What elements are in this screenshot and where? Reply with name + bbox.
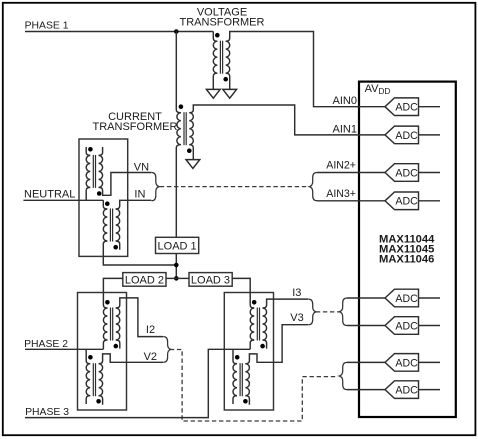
wire ADC3 internal output bbox=[419, 172, 441, 174]
wire T1 primary top lead bbox=[213, 32, 217, 42]
wire T7 secondary top lead I3 output bbox=[263, 299, 309, 308]
T7 primary polarity dot bbox=[252, 300, 257, 305]
T1 secondary polarity dot bbox=[223, 77, 228, 82]
wire T1 secondary top lead to AIN0 bbox=[226, 32, 385, 107]
svg-text:LOAD 3: LOAD 3 bbox=[191, 274, 230, 286]
wire ADC1 internal output bbox=[419, 106, 441, 108]
ADC block U1.3 bbox=[385, 164, 419, 182]
wire ADC7 input bbox=[347, 361, 385, 363]
dashed net I3/V3 to upper-lower ADC pair bbox=[316, 311, 339, 313]
label AIN1 pin bbox=[333, 123, 357, 135]
ADC block U1.7 bbox=[385, 354, 419, 372]
ADC block U1.4 bbox=[385, 192, 419, 210]
node junction neutral return bbox=[174, 263, 179, 268]
svg-text:ADC: ADC bbox=[395, 196, 418, 208]
svg-text:AIN1: AIN1 bbox=[333, 123, 357, 135]
label AIN2+ pin bbox=[326, 160, 356, 172]
neutral metering block box bbox=[79, 139, 128, 256]
transformer T1 voltage transformer bbox=[213, 41, 229, 74]
svg-text:IN: IN bbox=[134, 188, 145, 200]
LOAD 3 box bbox=[189, 273, 232, 287]
label V2 net bbox=[144, 351, 157, 363]
label AIN3+ pin bbox=[326, 188, 356, 200]
wire PHASE 1 line bbox=[25, 31, 213, 33]
wire T4 primary top lead from neutral bbox=[103, 200, 107, 209]
transformer T7 phase3 current transformer bbox=[250, 308, 266, 341]
wire T6 primary bottom stub bbox=[86, 396, 90, 404]
T5 secondary polarity dot bbox=[114, 344, 119, 349]
wire junction to LOAD 3 bbox=[176, 277, 189, 279]
svg-text:LOAD 2: LOAD 2 bbox=[125, 274, 164, 286]
label IN net bbox=[134, 188, 145, 200]
wire T6 primary top lead from phase2 bbox=[86, 349, 90, 363]
wire T2 secondary top lead to AIN1 bbox=[189, 105, 385, 135]
svg-text:ADC: ADC bbox=[395, 167, 418, 179]
transformer T4 neutral current transformer bbox=[103, 209, 119, 242]
wire ADC8 internal output bbox=[419, 389, 441, 391]
transformer T5 phase2 current transformer bbox=[103, 308, 119, 341]
label I2 net bbox=[146, 324, 155, 336]
brace I2/V2 outputs bbox=[163, 337, 171, 363]
label NEUTRAL bbox=[24, 188, 75, 200]
ground arrow T1 primary bbox=[206, 89, 220, 98]
wire ADC2 internal output bbox=[419, 134, 441, 136]
ADC block U1.5 bbox=[385, 289, 419, 307]
svg-text:PHASE 3: PHASE 3 bbox=[25, 407, 69, 418]
T7 secondary polarity dot bbox=[260, 344, 265, 349]
svg-text:TRANSFORMER: TRANSFORMER bbox=[180, 17, 265, 29]
wire ADC5 internal output bbox=[419, 297, 441, 299]
svg-text:I3: I3 bbox=[292, 287, 301, 299]
phase2 metering block box bbox=[78, 293, 127, 411]
label PHASE 2 bbox=[24, 339, 68, 350]
svg-text:NEUTRAL: NEUTRAL bbox=[24, 188, 75, 200]
dashed net VN/IN to AIN2+/AIN3+ bbox=[160, 186, 309, 188]
label VOLTAGE TRANSFORMER T1 bbox=[180, 7, 265, 29]
node junction load2/load3 bbox=[174, 276, 179, 281]
svg-text:V2: V2 bbox=[144, 351, 157, 363]
wire junction to LOAD 2 bbox=[166, 277, 176, 279]
transformer T3 neutral voltage transformer bbox=[86, 155, 102, 188]
svg-text:VN: VN bbox=[134, 162, 149, 174]
label PHASE 1 bbox=[25, 20, 69, 31]
transformer T6 phase2 voltage transformer bbox=[86, 363, 102, 396]
wire T7 primary bottom lead to phase3 line bbox=[250, 340, 254, 349]
transformer T8 phase3 voltage transformer bbox=[233, 363, 249, 396]
LOAD 2 box bbox=[123, 273, 166, 287]
T4 secondary polarity dot bbox=[113, 245, 118, 250]
svg-text:PHASE 1: PHASE 1 bbox=[25, 20, 69, 31]
wire T5 secondary top lead I2 output bbox=[116, 298, 163, 337]
T3 primary polarity dot bbox=[88, 147, 93, 152]
svg-text:AIN2+: AIN2+ bbox=[326, 160, 356, 172]
ground arrow T1 secondary bbox=[223, 89, 237, 98]
brace lower ADC pair inputs bbox=[339, 362, 347, 389]
transformer T2 current transformer bbox=[177, 112, 193, 145]
svg-text:TRANSFORMER: TRANSFORMER bbox=[93, 121, 178, 133]
ADC block U1.8 bbox=[385, 381, 419, 399]
label VN net bbox=[134, 162, 149, 174]
svg-text:AIN0: AIN0 bbox=[333, 95, 357, 107]
T6 primary polarity dot bbox=[88, 355, 93, 360]
T5 primary polarity dot bbox=[105, 300, 110, 305]
svg-text:ADC: ADC bbox=[395, 130, 418, 142]
wire ADC6 input bbox=[347, 325, 385, 327]
T6 secondary polarity dot bbox=[96, 399, 101, 404]
svg-text:ADC: ADC bbox=[395, 320, 418, 332]
svg-text:PHASE 2: PHASE 2 bbox=[24, 339, 68, 350]
wire ADC6 internal output bbox=[419, 325, 441, 327]
wire LOAD1 to junction bbox=[175, 254, 177, 279]
label PHASE 3 bbox=[25, 407, 69, 418]
node junction phase1/CT primary bbox=[174, 29, 179, 34]
ground arrow T2 secondary bbox=[186, 160, 200, 169]
wire PHASE 2 line bbox=[25, 348, 103, 350]
ADC block U1.6 bbox=[385, 317, 419, 335]
svg-text:LOAD 1: LOAD 1 bbox=[158, 241, 197, 253]
LOAD 1 box bbox=[156, 237, 199, 253]
label U1 part numbers MAX11044 MAX11045 MAX11046 bbox=[379, 233, 435, 265]
brace I3/V3 ADC pair inputs bbox=[339, 298, 347, 326]
wire ADC8 input bbox=[347, 389, 385, 391]
wire AIN2+ input bbox=[317, 172, 385, 174]
wire T4 secondary bottom stub bbox=[116, 241, 120, 250]
wire T3 secondary top stub bbox=[99, 147, 103, 155]
wire T8 secondary top lead V3 output bbox=[245, 325, 308, 364]
wire T8 primary bottom stub bbox=[233, 396, 237, 404]
svg-text:AIN3+: AIN3+ bbox=[326, 188, 356, 200]
wire T1 primary bottom lead bbox=[213, 73, 217, 89]
wire T5 primary bottom lead to phase2 line bbox=[103, 340, 107, 349]
wire T8 secondary bottom stub bbox=[245, 396, 249, 405]
wire T8 primary top lead from phase3 bbox=[233, 349, 237, 363]
label V3 net bbox=[290, 312, 303, 324]
wire T4 primary bottom lead to loads bbox=[103, 241, 176, 265]
wire ADC4 internal output bbox=[419, 200, 441, 202]
wire PHASE 3 line bbox=[25, 349, 250, 417]
T2 primary polarity dot bbox=[179, 104, 184, 109]
brace I3/V3 outputs bbox=[308, 299, 316, 325]
svg-text:MAX11046: MAX11046 bbox=[379, 253, 434, 265]
wire T4 secondary top lead IN output bbox=[116, 200, 152, 209]
IC U1 MAX11044/45/46 outline bbox=[359, 82, 456, 417]
wire LOAD3 to T7 primary bbox=[232, 278, 254, 308]
svg-text:ADC: ADC bbox=[395, 293, 418, 305]
svg-text:ADC: ADC bbox=[395, 357, 418, 369]
ADC block U1.1 bbox=[385, 98, 419, 116]
wire T2 primary bottom lead to LOAD 1 bbox=[176, 145, 181, 238]
wire ADC5 input bbox=[347, 297, 385, 299]
svg-text:V3: V3 bbox=[290, 312, 303, 324]
wire LOAD2 to T5 primary bbox=[103, 278, 122, 308]
svg-text:AVDD: AVDD bbox=[365, 83, 391, 96]
T8 primary polarity dot bbox=[235, 355, 240, 360]
wire T3 secondary bottom lead VN output bbox=[99, 173, 152, 196]
label AIN0 pin bbox=[333, 95, 357, 107]
T8 secondary polarity dot bbox=[243, 399, 248, 404]
phase3 metering block box bbox=[224, 293, 273, 411]
wire T2 secondary bottom lead bbox=[189, 145, 193, 160]
wire T6 secondary bottom stub bbox=[99, 396, 103, 405]
svg-text:ADC: ADC bbox=[395, 385, 418, 397]
dashed net I2/V2 to lower ADC pair bbox=[170, 350, 338, 422]
wire NEUTRAL line bbox=[23, 199, 103, 201]
wire T3 primary top stub bbox=[86, 147, 90, 155]
svg-text:I2: I2 bbox=[146, 324, 155, 336]
wire phase1 vertical / T2 primary top lead bbox=[176, 32, 181, 113]
ADC block U1.2 bbox=[385, 126, 419, 144]
wire T3 primary bottom lead to neutral bbox=[86, 187, 90, 200]
T1 primary polarity dot bbox=[215, 33, 220, 38]
T3 secondary polarity dot bbox=[97, 191, 102, 196]
wire AIN3+ input bbox=[317, 200, 385, 202]
brace VN/IN outputs bbox=[152, 173, 160, 201]
T4 primary polarity dot bbox=[105, 201, 110, 206]
label I3 net bbox=[292, 287, 301, 299]
wire T6 secondary top lead V2 output bbox=[99, 354, 164, 364]
svg-text:ADC: ADC bbox=[395, 102, 418, 114]
label CURRENT TRANSFORMER T2 bbox=[93, 111, 178, 133]
wire T5 secondary bottom stub bbox=[116, 340, 120, 349]
label AVDD power pin bbox=[365, 83, 391, 96]
brace AIN2+/AIN3+ inputs bbox=[309, 173, 317, 201]
wire ADC7 internal output bbox=[419, 361, 441, 363]
T2 secondary polarity dot bbox=[187, 148, 192, 153]
wire T1 secondary bottom lead bbox=[226, 73, 230, 89]
wire T7 secondary bottom stub bbox=[263, 340, 267, 349]
